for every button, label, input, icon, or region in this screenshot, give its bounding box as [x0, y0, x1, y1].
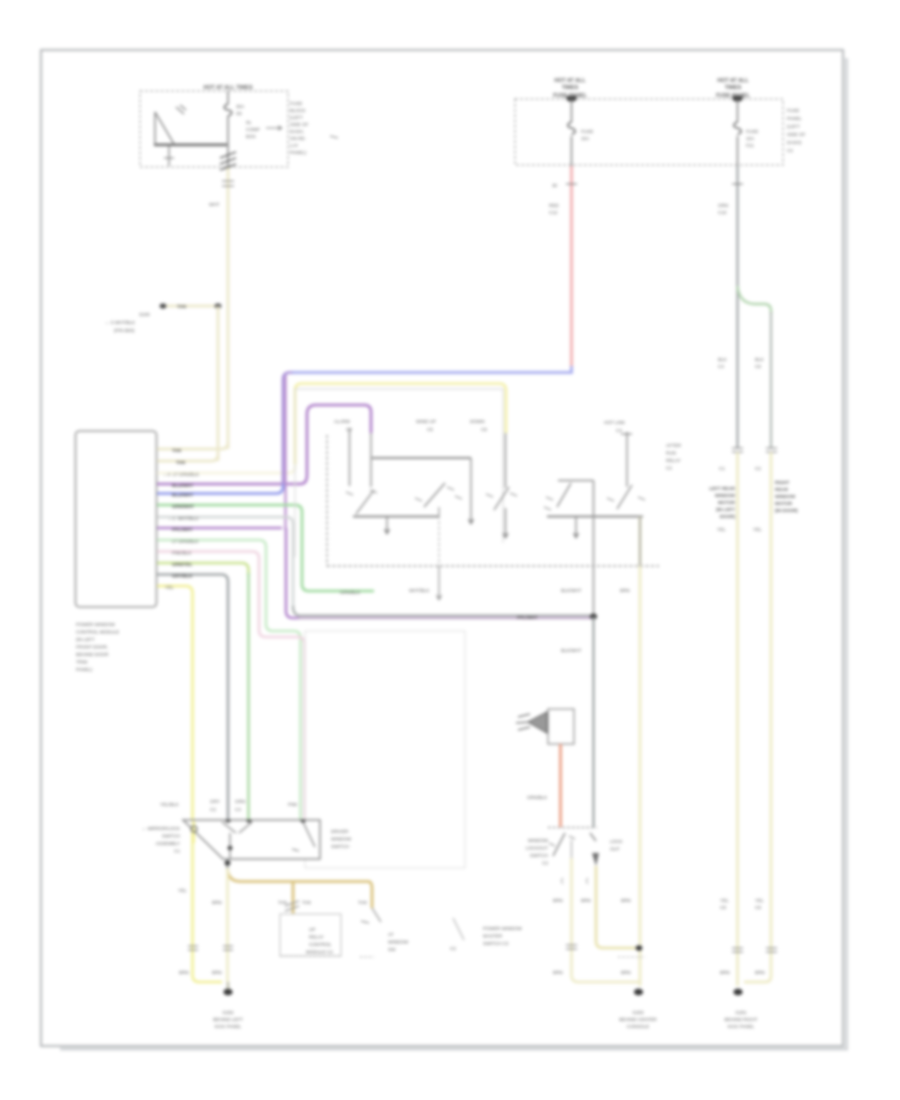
svg-text:BRN: BRN: [581, 898, 591, 903]
label HOT AT ALL TIMES (right fuse box, right): [717, 78, 749, 91]
stub below master switch: [226, 859, 228, 869]
svg-text:F21: F21: [746, 143, 754, 148]
svg-text:BOX: BOX: [246, 134, 256, 139]
labels above ground right: [720, 970, 765, 975]
labels BLK BLK: [718, 357, 728, 369]
switch SW1: [356, 490, 374, 514]
svg-text:(LEFT: (LEFT: [290, 115, 303, 120]
svg-text:KICK PANEL: KICK PANEL: [728, 1024, 755, 1029]
svg-text:BRN: BRN: [620, 588, 630, 593]
connector ticks on pale pair: [188, 946, 198, 950]
wire TAN gold from master switch: [228, 868, 373, 908]
svg-text:TAN: TAN: [302, 900, 311, 905]
svg-text:WINDOW: WINDOW: [715, 493, 736, 498]
pin 9 wire LT GRN: [157, 540, 301, 820]
battery B1: [155, 105, 186, 166]
svg-text:C12: C12: [549, 210, 558, 215]
labels above pale wires: [553, 898, 631, 903]
svg-text:C2: C2: [666, 466, 672, 471]
svg-text:(IN LEFT: (IN LEFT: [76, 637, 95, 642]
svg-text:IN.: IN.: [246, 120, 252, 125]
splice note text: [105, 312, 150, 333]
bus bar inside fuse block: [154, 144, 227, 147]
svg-text:BRN: BRN: [720, 970, 730, 975]
svg-text:YEL: YEL: [755, 898, 764, 903]
switch SW2: [424, 483, 445, 507]
svg-text:DASH,: DASH,: [290, 129, 304, 134]
svg-text:BEHIND LEFT: BEHIND LEFT: [213, 1017, 243, 1022]
svg-text:SWITCH: SWITCH: [331, 844, 349, 849]
ground G202 splice dot: [223, 989, 232, 996]
svg-text:PNK: PNK: [288, 802, 298, 807]
svg-text:C2: C2: [210, 807, 216, 812]
connector note text left of 737: [709, 486, 735, 519]
pin 7 wire WHT: [157, 517, 293, 609]
svg-text:← 5 WHT/BLK: ← 5 WHT/BLK: [105, 320, 136, 325]
pin 10 wire PNK: [157, 552, 305, 821]
svg-text:10A: 10A: [746, 136, 755, 141]
switch SW5: [557, 483, 571, 507]
labels YEL YEL mid: [720, 898, 729, 910]
svg-text:YEL: YEL: [165, 585, 174, 590]
label on chime feed: [561, 648, 582, 653]
bus drop mid arrow: [385, 517, 390, 535]
SW3 drop arrow: [503, 508, 508, 538]
svg-text:GRN/WHT: GRN/WHT: [172, 504, 194, 509]
wire ORN from chime: [559, 744, 562, 827]
label ALARM: [334, 419, 352, 432]
connector on tan branch: [285, 901, 299, 911]
svg-text:C2: C2: [787, 148, 793, 153]
small arrow marker: [330, 136, 338, 138]
svg-text:C8: C8: [720, 905, 726, 910]
svg-text:DOWN: DOWN: [470, 419, 485, 424]
yellow entry drop: [505, 433, 507, 488]
hot link entry drop: [626, 432, 628, 487]
svg-text:BLU/WHT: BLU/WHT: [172, 493, 193, 498]
inline connector ticks: [732, 448, 743, 452]
svg-text:MODULE C2: MODULE C2: [306, 950, 333, 955]
connector ticks bottom right pair: [732, 948, 743, 952]
fuse F21: [737, 99, 739, 166]
svg-text:GRY/BLK: GRY/BLK: [172, 574, 193, 579]
pin 8 wire PPL to splice: [157, 528, 300, 618]
fuse value label: [236, 104, 245, 116]
svg-text:ORN/BLK: ORN/BLK: [527, 795, 548, 800]
pin 6 wire GRN: [157, 505, 374, 591]
labels above master switch box: [160, 799, 298, 812]
svg-text:BRN: BRN: [553, 898, 563, 903]
svg-text:KICK PANEL: KICK PANEL: [215, 1024, 242, 1029]
svg-text:WINDOW: WINDOW: [528, 838, 549, 843]
svg-text:BLK: BLK: [718, 357, 728, 362]
TAN labels row: [278, 900, 367, 905]
svg-text:(IN DOOR): (IN DOOR): [775, 508, 798, 513]
svg-text:BEHIND RIGHT: BEHIND RIGHT: [725, 1017, 758, 1022]
svg-text:C2: C2: [450, 946, 456, 951]
svg-text:RUN: RUN: [666, 451, 676, 456]
svg-text:TAN: TAN: [177, 304, 187, 309]
wire YEL pale vertical right: [744, 452, 771, 982]
svg-text:(P/N 8D0): (P/N 8D0): [114, 328, 135, 333]
svg-text:SWITCH: SWITCH: [530, 853, 548, 858]
svg-text:WINDOW: WINDOW: [775, 494, 796, 499]
svg-text:PPL/WHT: PPL/WHT: [172, 527, 193, 532]
vertical through x593.5: [593, 481, 595, 616]
entry dots: [225, 819, 230, 822]
svg-text:FRONT DOOR,: FRONT DOOR,: [76, 645, 108, 650]
bus drop right: [469, 458, 474, 524]
svg-text:POWER WINDOW: POWER WINDOW: [76, 622, 115, 627]
switch assembly white box: [295, 389, 503, 557]
wire BLK vertical from fuse F21: [736, 166, 738, 448]
svg-text:BRN: BRN: [553, 970, 563, 975]
faint open switch far right: [453, 918, 464, 940]
connector tick on red wire: [566, 183, 577, 185]
svg-text:YEL: YEL: [720, 898, 729, 903]
svg-text:C6: C6: [481, 427, 487, 432]
pin 11 wire GRN/YEL: [157, 563, 249, 576]
svg-text:CONSOLE: CONSOLE: [627, 1024, 649, 1029]
svg-text:LAY: LAY: [290, 143, 298, 148]
fuse block note text column: [290, 101, 309, 155]
svg-text:C2: C2: [755, 466, 761, 471]
connector tick on blk wire: [732, 183, 743, 185]
svg-text:FUSE: FUSE: [581, 129, 593, 134]
svg-text:POWER WINDOW: POWER WINDOW: [483, 926, 522, 931]
connector text small upper: [719, 466, 761, 471]
relay sub-box: [280, 914, 341, 956]
master switch note right: [331, 829, 352, 849]
svg-text:BRN: BRN: [212, 970, 222, 975]
svg-text:TAN: TAN: [358, 900, 367, 905]
ground G201 text: [725, 1010, 758, 1029]
switch lever right: [303, 822, 315, 847]
labels below connectors: [717, 527, 762, 532]
note text block bottom center: [483, 926, 522, 946]
svg-text:OUT: OUT: [610, 847, 620, 852]
upper bus bar in switch box: [372, 457, 471, 459]
svg-text:TAN: TAN: [278, 900, 287, 905]
svg-text:YEL/BLK: YEL/BLK: [160, 802, 180, 807]
svg-text:C1: C1: [174, 849, 180, 854]
svg-text:BEHIND DOOR: BEHIND DOOR: [76, 652, 109, 657]
svg-text:30: 30: [552, 183, 558, 188]
label WINDOW UP: [416, 419, 436, 432]
svg-text:BLU/WHT: BLU/WHT: [172, 483, 193, 488]
svg-text:←4 LT GRN/BLK: ←4 LT GRN/BLK: [163, 472, 200, 477]
svg-text:S5: S5: [236, 111, 242, 116]
master switch dashed box: [327, 435, 659, 566]
pale yellow channel from switch box to G203: [639, 517, 642, 987]
svg-text:TIMES: TIMES: [562, 85, 579, 91]
svg-text:SIDE OF: SIDE OF: [290, 122, 309, 127]
svg-text:AFTER: AFTER: [666, 443, 682, 448]
svg-text:30A: 30A: [236, 104, 245, 109]
faint inner panel box A: [305, 631, 465, 868]
svg-text:CONTROL MODULE: CONTROL MODULE: [76, 630, 119, 635]
svg-text:TAN: TAN: [172, 448, 182, 453]
pin 5 wire BLU: [157, 482, 283, 494]
svg-text:WIND UP: WIND UP: [416, 419, 436, 424]
svg-text:SW: SW: [388, 947, 396, 952]
svg-text:LEFT REAR: LEFT REAR: [709, 486, 735, 491]
switch contact V: [222, 822, 252, 833]
svg-text:GRN/BLK: GRN/BLK: [340, 590, 361, 595]
lower bus bar left: [353, 516, 439, 518]
svg-text:TAN: TAN: [176, 460, 186, 465]
wire RED vertical from fuse F27: [570, 166, 573, 366]
driver master switch S2 (trapezoid): [183, 820, 320, 859]
terminal circle: [191, 826, 197, 832]
svg-text:GRN/YEL: GRN/YEL: [172, 562, 193, 567]
svg-text:RELAY: RELAY: [309, 935, 324, 940]
svg-text:C1: C1: [719, 466, 725, 471]
svg-text:AT: AT: [388, 932, 394, 937]
svg-text:MOTOR: MOTOR: [718, 500, 736, 505]
connector note text right of 771: [775, 480, 798, 513]
svg-text:DASH): DASH): [787, 140, 802, 145]
arrow to relay text: [266, 126, 282, 130]
lower bus bar right: [547, 516, 643, 518]
svg-text:G201: G201: [735, 1010, 747, 1015]
module caption text: [76, 622, 119, 672]
window lockout switch dashed top: [548, 827, 597, 829]
svg-text:PANEL): PANEL): [290, 150, 307, 155]
svg-text:FUSE: FUSE: [746, 129, 758, 134]
svg-text:G202: G202: [222, 1010, 234, 1015]
svg-text:RIGHT: RIGHT: [775, 480, 789, 485]
switch SW3: [494, 487, 509, 510]
svg-text:BEHIND CENTER: BEHIND CENTER: [619, 1017, 657, 1022]
svg-text:PANEL: PANEL: [787, 116, 802, 121]
svg-text:FUSE: FUSE: [290, 101, 302, 106]
svg-text:WHT: WHT: [209, 202, 220, 207]
svg-text:DRIVER: DRIVER: [331, 829, 349, 834]
wire BRN pale from lockout left: [572, 858, 641, 982]
junction dot at chime feed: [590, 614, 597, 620]
splice stub wire S240: [163, 305, 218, 308]
svg-text:TIMES: TIMES: [725, 85, 742, 91]
svg-text:MASTER: MASTER: [483, 934, 503, 939]
svg-text:BLOCK: BLOCK: [290, 108, 307, 113]
svg-text:ALARM: ALARM: [334, 419, 350, 424]
svg-text:SWITCH: SWITCH: [162, 834, 180, 839]
svg-text:ASSEMBLY: ASSEMBLY: [156, 841, 180, 846]
svg-text:YEL: YEL: [178, 888, 187, 893]
svg-text:C9: C9: [755, 905, 761, 910]
svg-text:FUSE: FUSE: [787, 108, 799, 113]
svg-text:←1 WHT/BLU: ←1 WHT/BLU: [168, 516, 198, 521]
svg-text:RED: RED: [549, 203, 559, 208]
svg-text:C4: C4: [616, 428, 622, 433]
svg-text:LOCKOUT: LOCKOUT: [526, 846, 548, 851]
svg-text:BRN: BRN: [621, 970, 631, 975]
svg-text:SWITCH C3: SWITCH C3: [483, 941, 509, 946]
svg-text:HOT AT ALL: HOT AT ALL: [717, 78, 749, 84]
svg-text:15A: 15A: [581, 136, 590, 141]
svg-text:C10: C10: [718, 210, 727, 215]
bus drop arrow x576: [574, 517, 579, 539]
labels below dashed box right: [561, 588, 630, 593]
wire YEL pale continues below master switch: [226, 868, 229, 982]
chime icon: [528, 712, 547, 733]
junction blob right: [733, 96, 743, 101]
svg-text:PANEL): PANEL): [76, 667, 93, 672]
open contact right tan branch: [372, 908, 381, 922]
power window control module U1: [76, 431, 157, 607]
labels on left pale pair: [178, 888, 187, 893]
pin 2 wire TAN: [157, 454, 218, 461]
fuse panel dashed box (right): [515, 99, 783, 165]
wire WHT fuse output vertical (pale): [227, 167, 230, 449]
svg-text:HOT AT ALL TIMES: HOT AT ALL TIMES: [203, 85, 253, 91]
svg-text:← MIRROR/LOCK: ← MIRROR/LOCK: [142, 826, 181, 831]
alarm feed vertical: [349, 428, 351, 486]
svg-text:C2: C2: [542, 861, 548, 866]
splice terminal right: [215, 303, 222, 308]
label HOT AT ALL TIMES (right fuse box): [554, 78, 586, 91]
purple entry drop: [370, 433, 372, 487]
chime module K1: [548, 709, 574, 744]
lockout switch note text: [526, 838, 549, 866]
svg-text:C4: C4: [235, 807, 241, 812]
svg-text:DOOR): DOOR): [720, 514, 736, 519]
ground G201 splice dot: [733, 989, 742, 996]
svg-text:BRN: BRN: [755, 970, 765, 975]
switch SW4: [617, 485, 632, 509]
junction blob left: [567, 96, 577, 101]
svg-text:YEL: YEL: [753, 527, 762, 532]
border frame shadow: [60, 58, 847, 1049]
splice terminal left: [160, 303, 167, 308]
svg-text:YEL: YEL: [717, 527, 726, 532]
svg-text:GRY: GRY: [210, 799, 220, 804]
svg-text:WINDOW: WINDOW: [388, 940, 409, 945]
svg-text:ON RE-: ON RE-: [290, 136, 307, 141]
svg-text:GRN: GRN: [235, 799, 245, 804]
svg-text:SIDE OF: SIDE OF: [787, 132, 806, 137]
svg-text:HOT AT ALL: HOT AT ALL: [554, 78, 586, 84]
svg-text:PNK/BLK: PNK/BLK: [172, 551, 192, 556]
relay text: [306, 927, 333, 955]
TAN branch down to relay: [292, 882, 295, 915]
pin 1 wire TAN: [157, 442, 228, 449]
svg-text:S240: S240: [139, 312, 150, 317]
svg-text:BRN: BRN: [179, 970, 189, 975]
svg-text:BLK/WHT: BLK/WHT: [561, 588, 582, 593]
svg-text:BLK: BLK: [755, 357, 765, 362]
wire BRN pale from lockout right: [596, 866, 640, 948]
svg-text:WHT/BLK: WHT/BLK: [409, 588, 430, 593]
pin 3 wire pale YEL/WHT: [157, 461, 295, 473]
svg-text:MOTOR: MOTOR: [775, 501, 793, 506]
ground G203 text: [619, 1010, 657, 1029]
svg-text:COMP: COMP: [246, 127, 260, 132]
svg-text:BLK/WHT: BLK/WHT: [561, 648, 582, 653]
svg-text:C6: C6: [755, 364, 761, 369]
ground G203 splice dot: [634, 989, 643, 996]
svg-text:LT GRN/BLK: LT GRN/BLK: [172, 539, 199, 544]
svg-text:C4: C4: [718, 364, 724, 369]
pin 4 wire PPL: [157, 405, 371, 484]
svg-text:G203: G203: [632, 1010, 644, 1015]
svg-text:ORN: ORN: [718, 203, 728, 208]
lockout switch contacts: [553, 833, 565, 856]
note text right of relay: [388, 932, 409, 952]
connector label right of battery: [246, 120, 260, 139]
wire TAN second vertical (pale): [217, 306, 220, 461]
wire GRN branch curve: [738, 286, 772, 314]
yellow wire visible inside switch: [192, 821, 195, 843]
fuse panel note text: [787, 108, 806, 153]
pin 12 wire GRY: [157, 575, 228, 821]
ground G202 text: [213, 1010, 243, 1029]
fuse block dashed box (left): [140, 91, 288, 167]
svg-text:TRIM: TRIM: [76, 660, 87, 665]
pin 13 wire YEL: [157, 586, 222, 982]
svg-text:(LEFT: (LEFT: [787, 124, 800, 129]
svg-text:(IN LEFT: (IN LEFT: [716, 507, 735, 512]
svg-text:BRN: BRN: [212, 900, 222, 905]
svg-text:PPL/WHT: PPL/WHT: [517, 615, 538, 620]
master switch note left: [142, 826, 181, 854]
svg-text:CONTROL: CONTROL: [309, 942, 332, 947]
svg-text:LOCK: LOCK: [610, 839, 623, 844]
svg-text:UP: UP: [309, 927, 315, 932]
svg-text:RELAY: RELAY: [666, 458, 681, 463]
svg-text:WINDOW: WINDOW: [331, 837, 352, 842]
svg-text:HOT LINK: HOT LINK: [604, 420, 626, 425]
label HOT LINK right: [604, 420, 626, 433]
fuse F27: [571, 99, 573, 166]
inline connector ticks on fuse output: [220, 152, 236, 170]
relay note text right of dashed box: [666, 443, 682, 471]
svg-text:BRN: BRN: [621, 898, 631, 903]
SW2 drop wire: [437, 507, 442, 600]
label WINDOW DN: [470, 419, 487, 432]
svg-text:REAR: REAR: [775, 487, 789, 492]
wire YEL pale vertical left (to G201): [736, 452, 739, 986]
sw5 feed bar: [558, 480, 594, 482]
svg-text:C5: C5: [427, 427, 433, 432]
chime feed vertical: [592, 617, 594, 828]
fuse F1 30A: [227, 91, 229, 167]
